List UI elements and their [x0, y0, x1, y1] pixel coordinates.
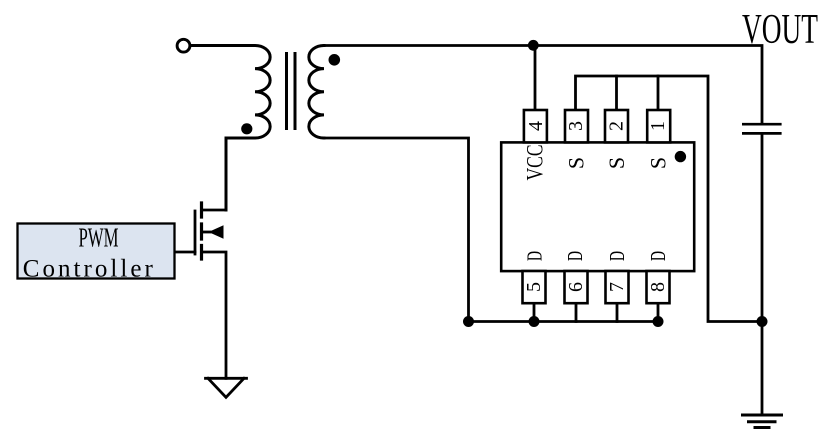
svg-text:3: 3: [565, 121, 587, 131]
svg-text:S: S: [604, 157, 629, 169]
svg-text:D: D: [646, 251, 670, 261]
svg-text:4: 4: [525, 121, 547, 131]
svg-text:1: 1: [647, 121, 669, 131]
svg-text:VOUT: VOUT: [742, 7, 818, 53]
svg-text:D: D: [605, 251, 629, 261]
svg-text:D: D: [563, 251, 587, 261]
svg-text:5: 5: [523, 282, 545, 292]
svg-text:6: 6: [565, 282, 587, 292]
svg-text:D: D: [523, 251, 547, 261]
svg-text:8: 8: [647, 282, 669, 292]
svg-text:Controller: Controller: [23, 256, 154, 283]
svg-text:VCC: VCC: [523, 145, 548, 181]
svg-text:2: 2: [605, 121, 627, 131]
svg-text:S: S: [564, 157, 589, 169]
svg-text:7: 7: [606, 282, 628, 292]
svg-text:PWM: PWM: [79, 223, 119, 253]
svg-text:S: S: [646, 157, 671, 169]
